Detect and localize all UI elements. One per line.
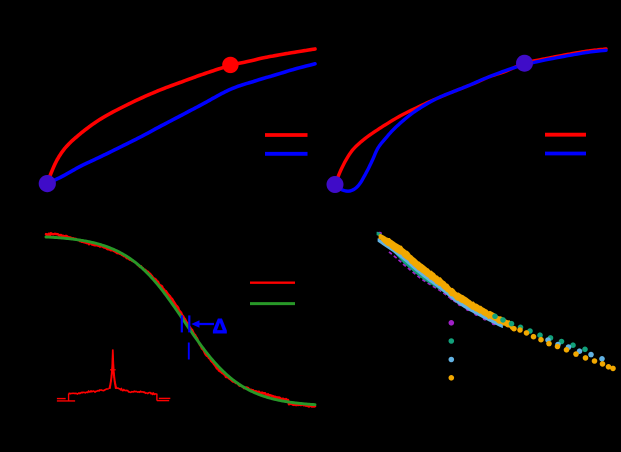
panel d: purple tail dots <box>450 295 455 300</box>
svg-text:Δ: Δ <box>213 315 228 338</box>
panel b legend: blue line <box>545 152 586 156</box>
inset: right baseline upper dash <box>159 397 171 399</box>
inset: central spike <box>109 350 118 389</box>
inset: left shoulder trace <box>69 389 109 394</box>
panel a: start marker dot <box>39 175 56 192</box>
inset: right baseline lower segment <box>157 400 169 402</box>
panel d: orange dotted series (dense band) <box>379 234 513 330</box>
panel c annotation: dashed vertical guide <box>188 343 190 360</box>
panel b: blue curve with initial dip <box>335 50 606 191</box>
panel b: marker dot on curve <box>516 55 533 72</box>
panel c annotation: right tick of interval <box>188 315 190 332</box>
panel c legend: green line <box>250 302 295 305</box>
inset: left baseline lower segment <box>57 400 75 402</box>
panel a legend: red line <box>265 133 308 137</box>
panel d: teal tail dots <box>492 314 498 320</box>
panel a: red pump curve <box>47 49 315 184</box>
inset: left step up <box>68 394 70 401</box>
panel a: blue probe curve <box>47 64 315 184</box>
panel d: sky-blue tail dots <box>545 337 551 343</box>
panel d legend: orange dot <box>449 375 455 381</box>
panel d: purple tip dash at stream start <box>377 232 382 235</box>
inset: right shoulder trace <box>117 388 157 394</box>
panel d: purple dashed line under band <box>389 252 470 310</box>
panel b: red curve <box>335 49 606 185</box>
inset: spike side lobes <box>110 369 116 371</box>
panel d legend: purple dot <box>449 320 455 326</box>
panel d: teal dotted series (below band at start, above at tail) <box>377 232 472 307</box>
panel d: sky-blue dotted series (dense band) <box>378 239 503 328</box>
panel a legend: blue line <box>265 152 308 156</box>
panel c annotation: left tick of interval <box>181 315 183 332</box>
inset: right step down <box>156 394 158 401</box>
panel c annotation: arrow head <box>191 320 199 327</box>
panel d legend: sky-blue dot <box>449 357 455 363</box>
panel b legend: red line <box>545 133 586 137</box>
panel c: green fit sigmoid <box>46 237 315 405</box>
panel d legend: teal dot <box>449 338 455 344</box>
panel d: orange tail dots <box>511 326 517 332</box>
panel c legend: red line <box>250 282 295 284</box>
panel c annotation: arrow shaft <box>196 323 214 325</box>
panel a: red marker dot on curve <box>222 57 238 73</box>
panel c: red experimental sigmoid <box>46 233 315 406</box>
inset: left baseline upper dash <box>57 398 66 400</box>
panel b: start marker dot <box>327 176 344 193</box>
